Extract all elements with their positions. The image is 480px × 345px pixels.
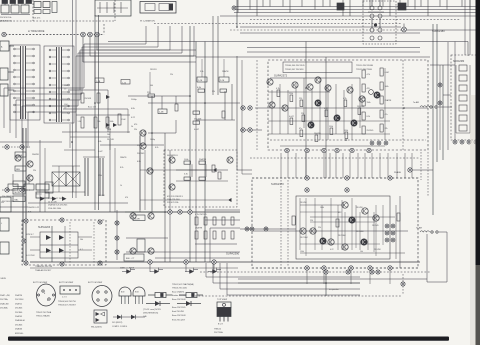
dashed enclosure around tone block [0, 0, 115, 21]
SUPA2372 wiring verticals [272, 78, 360, 140]
connector row module top edge [305, 176, 392, 180]
svg-text:1-4B: 1-4B [159, 112, 164, 114]
svg-text:2SA726 0.22: 2SA726 0.22 [28, 206, 39, 209]
TO-92 package 1 [119, 287, 131, 304]
transistor TR502 [292, 82, 298, 88]
bridge diode D204 [59, 248, 64, 253]
svg-text:to TONE MODE: to TONE MODE [28, 30, 45, 33]
svg-text:100k: 100k [110, 121, 114, 123]
right module component column [456, 65, 470, 133]
svg-text:0.01 250V: 0.01 250V [26, 255, 35, 257]
svg-text:0.22: 0.22 [330, 249, 334, 251]
svg-text:SM-1(240V): SM-1(240V) [91, 327, 102, 329]
mid label column [107, 124, 137, 141]
svg-text:2SC458: 2SC458 [356, 207, 363, 209]
terminal bus pair [23, 128, 26, 262]
capacitor C04 upper [64, 85, 76, 91]
svg-text:2SC1364: 2SC1364 [338, 235, 346, 237]
switch contact circles B [370, 18, 382, 40]
flat package part numbers [58, 301, 77, 307]
harness drop wires [238, 0, 470, 16]
transistor TR407 [130, 248, 136, 254]
svg-text:C04: C04 [64, 104, 67, 106]
resistor R101 vertical [81, 93, 91, 103]
scan edge black strip [476, 0, 480, 265]
dashed supply bus [200, 271, 430, 273]
svg-text:TR503,507 2SC867: TR503,507 2SC867 [58, 305, 77, 307]
value box 1-2B [95, 78, 104, 83]
transistor TR201 [15, 155, 21, 161]
bottom-left drops [30, 264, 238, 272]
module conn bottom-right [98, 261, 102, 265]
terminal block C [0, 242, 9, 254]
svg-text:2SC458: 2SC458 [374, 249, 381, 251]
svg-text:TRAIN,NS 2SC708: TRAIN,NS 2SC708 [35, 265, 53, 268]
svg-text:2SC1400: 2SC1400 [356, 231, 364, 233]
svg-text:PoW: PoW [122, 119, 126, 121]
svg-text:2SC458: 2SC458 [137, 145, 145, 147]
feed line to power amp [240, 26, 401, 28]
svg-text:To AM: To AM [413, 101, 419, 104]
svg-text:Emit 2SC458: Emit 2SC458 [172, 310, 185, 313]
svg-text:2SA798: 2SA798 [195, 227, 203, 230]
svg-text:2SA5.4W,: 2SA5.4W, [0, 302, 9, 305]
left mid wires and labels [0, 140, 62, 212]
svg-text:TR510 2SC1509B: TR510 2SC1509B [356, 65, 373, 67]
phase link [394, 168, 433, 174]
parts table in module [283, 62, 373, 73]
svg-text:B C E: B C E [218, 324, 224, 326]
svg-text:100k: 100k [184, 159, 188, 161]
resistor box 1-4B [158, 109, 167, 114]
svg-text:2SC80A: 2SC80A [0, 307, 8, 310]
bias network wires [0, 212, 240, 258]
svg-text:PHASE: PHASE [394, 171, 402, 174]
bridge diode D201 [46, 235, 51, 240]
svg-text:2SA711: 2SA711 [15, 302, 23, 305]
svg-text:1-47K: 1-47K [135, 219, 141, 221]
svg-text:22k: 22k [33, 170, 36, 172]
function switch bank S2 [44, 46, 74, 123]
input jack AUX [0, 41, 9, 51]
transistor TR305 [147, 168, 153, 174]
svg-text:866 . CT: 866 . CT [126, 258, 135, 260]
connector CN9 [402, 24, 476, 32]
svg-text:ERD50LL: ERD50LL [15, 333, 25, 335]
svg-text:Base 2SA574: Base 2SA574 [172, 290, 185, 293]
speaker feed rails [238, 274, 447, 296]
svg-text:150k: 150k [344, 130, 348, 132]
svg-text:42max: 42max [36, 194, 42, 196]
svg-text:22k: 22k [318, 227, 321, 229]
TO-3 package bottom view 2 [92, 286, 112, 307]
module bottom connector row [285, 148, 371, 152]
output transistor TR602 [373, 215, 379, 221]
resistor R102 vertical [97, 93, 100, 103]
svg-text:4.7k: 4.7k [367, 74, 371, 76]
svg-text:50k 47k: 50k 47k [33, 18, 41, 20]
resistor symbol legend 2 [179, 293, 203, 298]
svg-text:Base 2SC1345: Base 2SC1345 [172, 307, 186, 309]
inner wires of output stage [252, 198, 408, 256]
TO-92 package 2 [133, 287, 145, 304]
input jack TUNER [0, 68, 8, 80]
output stage inner box [296, 196, 390, 259]
svg-text:150k: 150k [329, 126, 333, 128]
svg-text:2SC458: 2SC458 [98, 195, 105, 197]
svg-text:Base CM: Base CM [88, 107, 96, 109]
misc short verticals top center [150, 59, 224, 94]
transistor TR302 [227, 157, 233, 163]
module feed dashed rail [250, 157, 420, 159]
transistor TR508 [282, 105, 288, 111]
module conn mid-left [22, 239, 26, 243]
svg-text:3.3k: 3.3k [184, 174, 188, 176]
svg-text:2SC806: 2SC806 [15, 324, 23, 326]
svg-text:SUPA2201: SUPA2201 [167, 154, 178, 157]
module conn top-mid [60, 218, 64, 222]
svg-text:10k: 10k [107, 134, 110, 136]
wire joints [148, 96, 176, 133]
ground bus [30, 261, 420, 263]
connector P1 [81, 32, 86, 37]
output transistor TR601 [362, 208, 368, 214]
svg-text:2SC945: 2SC945 [137, 153, 145, 155]
bus connectors [148, 260, 216, 264]
feed drop wires [281, 153, 412, 284]
svg-text:2SA726: 2SA726 [120, 156, 126, 159]
svg-text:2SA705: 2SA705 [15, 315, 23, 318]
svg-text:4.7k: 4.7k [343, 98, 347, 100]
connector stubs right [438, 65, 442, 150]
capacitor C04 lower [64, 104, 67, 110]
transistor TR510 [315, 100, 321, 106]
output transistor TR607 [342, 244, 348, 250]
transistor TR204 [140, 130, 146, 136]
capacitor C902 on top bus [398, 3, 406, 10]
svg-text:1-2B: 1-2B [96, 81, 101, 83]
connector P2 [88, 32, 93, 37]
diode row above module [28, 194, 128, 204]
svg-text:SUPA2372: SUPA2372 [274, 74, 288, 78]
dashed return bus [195, 295, 402, 297]
connector row mid [168, 210, 192, 214]
svg-text:0.22: 0.22 [338, 212, 342, 214]
svg-text:100k: 100k [107, 129, 111, 131]
legend table [172, 283, 194, 301]
small cap C201 [175, 104, 178, 111]
svg-text:2SC756A: 2SC756A [214, 331, 223, 334]
value box 1-24 [121, 80, 130, 85]
svg-text:2SC1364: 2SC1364 [15, 299, 24, 301]
svg-text:220: 220 [310, 220, 313, 222]
scan edge gray band [470, 95, 476, 345]
bridge wires [40, 222, 78, 263]
SUPA2372 resistor scatter [276, 88, 364, 142]
transistor TR503 [307, 84, 313, 90]
bus rails under tone connectors [83, 37, 196, 62]
output transistor TR605 [310, 228, 316, 234]
svg-text:0.047: 0.047 [194, 129, 200, 131]
svg-text:SUPA2203: SUPA2203 [38, 226, 51, 229]
wires into driver module [100, 131, 164, 212]
output transistor TR603 [349, 217, 355, 223]
tone control block (cut off at top edge) [0, 0, 32, 23]
svg-text:22k: 22k [301, 113, 304, 115]
wire pair from tone block down [73, 0, 77, 198]
svg-text:C04: C04 [64, 85, 67, 87]
diode D101 [106, 95, 110, 99]
extra mid rails [165, 133, 170, 262]
svg-text:4.7k: 4.7k [276, 88, 280, 90]
transistor TR202 [27, 161, 33, 167]
transistor TR506 [347, 87, 353, 93]
output transistor TR606 [328, 239, 334, 245]
svg-text:470: 470 [134, 124, 137, 126]
svg-text:MAIN am FUSE: MAIN am FUSE [120, 267, 135, 270]
CT label box [124, 254, 144, 261]
svg-text:150k: 150k [289, 93, 293, 95]
left preamp parts row [0, 174, 53, 207]
diode symbol legend 1 [146, 301, 170, 306]
transistor TR303 [169, 184, 175, 190]
svg-text:2SA7..,4W,: 2SA7..,4W, [0, 294, 10, 297]
transistor TR405 [130, 213, 136, 219]
TO-220 part numbers [214, 329, 223, 335]
svg-text:TRAILAN 2SC817: TRAILAN 2SC817 [35, 269, 52, 272]
transistor TR505 [325, 85, 331, 91]
svg-text:2SC846: 2SC846 [15, 312, 23, 314]
svg-text:6.8k: 6.8k [131, 108, 135, 110]
svg-text:22k: 22k [170, 74, 173, 76]
driver module dashed box [164, 150, 237, 207]
diode D103 [113, 123, 117, 127]
svg-text:150k: 150k [98, 175, 102, 177]
driver module passives [167, 158, 228, 204]
connector pair CN1 [241, 106, 252, 110]
input jack PHONO [0, 84, 8, 96]
svg-text:2SC806: 2SC806 [15, 308, 23, 310]
svg-text:TR502 2SC756A: TR502 2SC756A [36, 311, 52, 314]
diode matrix squares [45, 166, 85, 192]
transistor TR301 [169, 157, 175, 163]
svg-text:Emit 2SC1209: Emit 2SC1209 [172, 318, 186, 321]
transistor TR509 [359, 96, 365, 102]
module SUPA2380 dashed outline [451, 55, 479, 140]
svg-text:to speaker: to speaker [329, 288, 339, 291]
svg-text:2SD313: 2SD313 [150, 69, 157, 71]
svg-text:SUPA2390: SUPA2390 [226, 252, 240, 256]
TO-3 part numbers [36, 311, 52, 318]
transistor TR203 [27, 175, 33, 181]
svg-text:10k: 10k [98, 121, 101, 123]
bridge diode D203 [46, 248, 51, 253]
legend table 2 [172, 307, 186, 321]
svg-text:SCALE: SCALE [16, 154, 23, 157]
transistor TR501 [267, 79, 273, 85]
value box 1-47K [133, 215, 145, 221]
svg-text:10k: 10k [360, 251, 363, 253]
transistor TR408 [148, 248, 154, 254]
module conn top-left [24, 219, 28, 223]
svg-text:1k: 1k [131, 126, 133, 128]
svg-text:DISK,RESIST(S): DISK,RESIST(S) [143, 313, 158, 315]
svg-text:(TO-92 case) NOTE: (TO-92 case) NOTE [143, 309, 162, 311]
svg-text:560: 560 [150, 85, 153, 87]
value label column mid-left [131, 99, 145, 163]
svg-text:2SC945: 2SC945 [372, 225, 379, 227]
svg-text:470: 470 [125, 197, 128, 199]
svg-text:TR503 2SC1345: TR503 2SC1345 [172, 288, 188, 290]
relay box W1-2 WATCH [140, 2, 176, 23]
svg-text:Base 2SC1448: Base 2SC1448 [172, 299, 186, 301]
output connector grid [385, 224, 395, 242]
long rail to power amp top [108, 30, 468, 59]
svg-text:2SA726: 2SA726 [314, 132, 321, 135]
svg-text:TR501,502 2SA798(BA): TR501,502 2SA798(BA) [172, 283, 194, 286]
svg-text:150k: 150k [300, 251, 304, 253]
module inner dashed divider [402, 60, 404, 150]
switch contact circles A [368, 0, 384, 18]
output transistor TR600 [342, 202, 348, 208]
module SUPA2372 dashed outline [268, 60, 428, 150]
svg-text:BOTTOM VIEW: BOTTOM VIEW [59, 282, 73, 284]
svg-text:2SA726: 2SA726 [15, 294, 23, 297]
svg-text:2SC945: 2SC945 [107, 139, 114, 141]
connector group inside left [240, 227, 296, 231]
connector row A [2, 145, 30, 149]
bridge box [40, 232, 78, 258]
speaker wire bundle corners [206, 263, 360, 295]
svg-text:TR501 2SA490: TR501 2SA490 [36, 315, 51, 318]
module edge dashed vertical [256, 60, 258, 150]
svg-text:0.047: 0.047 [289, 116, 294, 118]
svg-text:10k: 10k [80, 239, 83, 241]
module SUPA2370 dashed outline [252, 178, 418, 268]
svg-text:2SC1400 560: 2SC1400 560 [2, 201, 15, 203]
mid vertical rails [110, 136, 145, 212]
supply bus connectors [324, 270, 380, 274]
svg-text:TR504,506 2SC1345: TR504,506 2SC1345 [285, 65, 305, 67]
resistor symbol legend 1 [148, 293, 172, 298]
connector row B [2, 188, 30, 192]
connector row right module [453, 140, 478, 144]
misc labels mid column [98, 139, 158, 199]
module conn top-right [98, 220, 102, 224]
svg-text:BOTTOM VIEW: BOTTOM VIEW [88, 282, 102, 284]
terminal block B [0, 218, 9, 231]
misc labels top center [150, 69, 228, 93]
svg-text:W 1,2(WATCH): W 1,2(WATCH) [140, 20, 155, 23]
diode symbol legend 2 [177, 301, 201, 306]
dashed signal bus to TONE MODE [2, 24, 104, 35]
svg-text:BA-L: BA-L [15, 199, 19, 202]
value boxes 1-2E 2-2E [197, 77, 229, 82]
phono input switch dashed box [363, 1, 396, 44]
To AM coil lower [416, 227, 447, 283]
legend color code text [143, 309, 162, 318]
connector row module bottom edge [305, 266, 392, 270]
transistor TR514 [374, 92, 380, 98]
module left dashed verticals [281, 180, 288, 266]
module interior connector cluster [370, 141, 388, 145]
svg-text:2SC458 10k: 2SC458 10k [0, 17, 12, 19]
svg-text:TR503,507 2SC458: TR503,507 2SC458 [285, 69, 304, 71]
svg-text:6.8k: 6.8k [98, 141, 101, 143]
TO-3 package bottom view 1 [37, 284, 56, 306]
resistor R105 vertical [106, 117, 113, 128]
svg-text:2SA726 8.2k 2SC945: 2SA726 8.2k 2SC945 [48, 204, 68, 207]
transistor TR406 [148, 213, 154, 219]
bridge rectifier symbol [91, 310, 107, 329]
dashed harness rail [154, 23, 402, 25]
connector P3 [95, 32, 100, 37]
bias resistor bank [195, 214, 237, 244]
diode D102 [106, 123, 110, 127]
nested routing loop wires [4, 26, 194, 148]
module conn bottom-left [24, 261, 28, 265]
svg-text:SUPA2370: SUPA2370 [271, 182, 284, 186]
bridge diode D202 [59, 235, 64, 240]
relay boxes column [13, 181, 49, 202]
connector pair CN2 [241, 128, 252, 132]
phono EQ ladder rails [62, 90, 130, 133]
wire corner drop [236, 13, 238, 27]
output transistor TR608 [361, 239, 367, 245]
tone amp cluster [128, 84, 240, 131]
svg-text:SUPA2380: SUPA2380 [432, 29, 445, 33]
svg-text:2SC945: 2SC945 [367, 130, 374, 132]
wire pair selector down [95, 15, 99, 210]
output transistor TR609 [320, 238, 326, 244]
connector harness left [232, 6, 236, 10]
svg-text:2SC458: 2SC458 [85, 98, 92, 100]
svg-text:2SC458: 2SC458 [300, 202, 307, 204]
svg-text:8.2k: 8.2k [155, 147, 158, 149]
connector P0 [2, 32, 6, 36]
mid-left stub wires [64, 124, 110, 150]
svg-text:150k: 150k [367, 102, 371, 104]
To AM link [413, 101, 452, 108]
output transistor TR604 [300, 228, 306, 234]
fuse diode row [120, 267, 221, 274]
SUPA2372 right component columns [362, 68, 391, 140]
volume pot bars [83, 157, 105, 196]
svg-text:1-2E: 1-2E [198, 80, 203, 82]
jack wires [8, 46, 14, 90]
tall component box [137, 239, 145, 252]
svg-text:MUTE: MUTE [15, 192, 21, 194]
svg-text:2SA566: 2SA566 [15, 328, 23, 331]
svg-text:470: 470 [367, 88, 370, 90]
svg-text:TRN,06: TRN,06 [214, 329, 222, 331]
svg-text:2-2E: 2-2E [220, 80, 225, 82]
svg-text:220 470 33k: 220 470 33k [167, 202, 179, 204]
module inner labels [26, 222, 94, 263]
function switch bank S1 [10, 45, 40, 120]
misc value labels output module [300, 202, 381, 253]
transistor TR507 [269, 102, 275, 108]
svg-text:8.2k: 8.2k [120, 167, 123, 169]
transistor TR205 [140, 143, 146, 149]
return bus connector [401, 274, 405, 294]
transistor TR511 [334, 115, 340, 121]
nested loop wires left of module [205, 56, 252, 262]
transistor TR512 [351, 120, 357, 126]
resistor R106 vertical [118, 114, 126, 125]
module right dashed verticals [421, 152, 428, 196]
connector column right of module [115, 210, 119, 260]
